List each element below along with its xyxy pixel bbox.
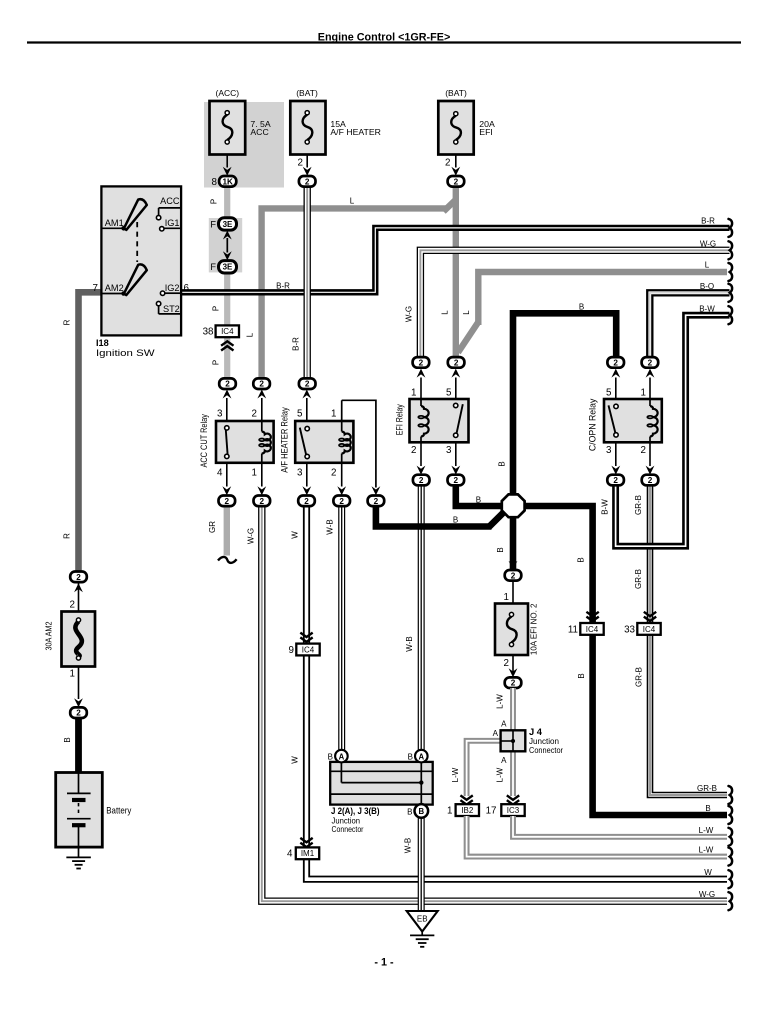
label pin 2 AM2 bbox=[70, 599, 75, 610]
connector 33 IC4 bbox=[637, 623, 660, 635]
svg-text:IM1: IM1 bbox=[301, 849, 315, 858]
wire B EFI-relay-3-to-octagon bbox=[456, 486, 507, 507]
svg-text:3: 3 bbox=[606, 445, 612, 456]
connector oval 2 (B-R relay) bbox=[299, 378, 316, 389]
svg-text:3E: 3E bbox=[223, 220, 233, 229]
connector 38 IC4 bbox=[216, 325, 239, 337]
svg-text:ACC: ACC bbox=[160, 196, 180, 206]
label P below 1K bbox=[210, 199, 219, 204]
svg-text:L: L bbox=[441, 310, 450, 315]
svg-text:3: 3 bbox=[446, 445, 452, 456]
ignition AM1 contact bbox=[101, 226, 125, 231]
ignition dashed link bbox=[136, 222, 138, 262]
fusible link 30A AM2 box bbox=[62, 612, 96, 667]
svg-text:W: W bbox=[291, 531, 300, 539]
brace B-R bbox=[729, 219, 733, 237]
svg-text:1K: 1K bbox=[222, 177, 233, 186]
svg-text:2: 2 bbox=[260, 497, 265, 506]
svg-text:GR-B: GR-B bbox=[634, 495, 643, 515]
chevrons above 4 IM1 bbox=[300, 838, 312, 847]
wire B-O right-edge-to-COPN-relay-1 bbox=[650, 293, 730, 357]
svg-text:P: P bbox=[212, 360, 221, 365]
svg-text:ACC CUT Relay: ACC CUT Relay bbox=[199, 414, 209, 468]
chevrons above 9 IC4 bbox=[300, 633, 312, 642]
svg-text:2: 2 bbox=[504, 658, 509, 669]
svg-text:4: 4 bbox=[287, 849, 293, 860]
svg-text:5: 5 bbox=[606, 388, 612, 399]
label W-B col efi bbox=[405, 636, 414, 651]
ignition switch box bbox=[101, 186, 181, 335]
svg-text:A: A bbox=[339, 752, 345, 761]
label W-G col bbox=[247, 528, 256, 544]
connector oval 2 (W-B efi) bbox=[413, 475, 430, 486]
label IG1 bbox=[165, 218, 180, 228]
wire B octagon-south-to-fuse bbox=[510, 512, 517, 570]
svg-text:W: W bbox=[291, 756, 300, 764]
label I18 bbox=[96, 338, 109, 348]
fuse 15A box bbox=[290, 101, 325, 155]
label B circa left bbox=[328, 753, 333, 762]
EFI coil bbox=[418, 399, 428, 442]
label (ACC) bbox=[215, 88, 239, 98]
label pin 3 AF bbox=[297, 467, 303, 478]
svg-text:3: 3 bbox=[297, 467, 303, 478]
svg-text:W-B: W-B bbox=[405, 636, 414, 651]
svg-text:8: 8 bbox=[212, 177, 218, 188]
wire B battery bbox=[75, 718, 82, 773]
label F upper bbox=[210, 219, 216, 229]
title rule bbox=[27, 41, 741, 43]
svg-text:(BAT): (BAT) bbox=[445, 88, 467, 98]
wire L-W J4-down bbox=[510, 751, 516, 796]
svg-text:2: 2 bbox=[225, 497, 230, 506]
label pin 2 bbox=[252, 409, 257, 420]
label B battery bbox=[63, 737, 72, 742]
label 15A A/F HEATER bbox=[330, 119, 381, 137]
wire 10A-to-oval bbox=[509, 655, 518, 677]
svg-text:J 2(A), J 3(B): J 2(A), J 3(B) bbox=[331, 805, 380, 816]
connector oval 2 (L relay) bbox=[253, 378, 270, 389]
label W col lower bbox=[291, 756, 300, 764]
svg-text:EFI: EFI bbox=[479, 127, 493, 137]
label GR-B col c bbox=[635, 667, 644, 687]
wire ACC-relay pin1 down bbox=[257, 463, 266, 495]
svg-text:IC4: IC4 bbox=[221, 327, 234, 336]
label pin 1b bbox=[252, 467, 257, 478]
svg-text:1: 1 bbox=[504, 592, 509, 603]
fuse 10A EFI NO.2 box bbox=[495, 604, 528, 656]
svg-text:7: 7 bbox=[93, 283, 98, 294]
svg-text:9: 9 bbox=[289, 645, 294, 656]
svg-text:C/OPN Relay: C/OPN Relay bbox=[588, 398, 598, 451]
svg-text:GR-B: GR-B bbox=[697, 784, 717, 793]
wire EFI pin2 down bbox=[417, 442, 426, 475]
wire B octagon-north-to-COPN-relay-5 bbox=[513, 313, 616, 500]
label P above IC4 bbox=[212, 306, 221, 311]
label B circb bbox=[407, 807, 412, 816]
title heading bbox=[318, 32, 451, 44]
label B-W edge bbox=[699, 304, 715, 313]
wire P fuse-to-3E bbox=[224, 187, 230, 220]
svg-text:I18: I18 bbox=[96, 338, 109, 348]
svg-text:2: 2 bbox=[304, 497, 309, 506]
svg-text:W-G: W-G bbox=[405, 306, 414, 322]
svg-text:11: 11 bbox=[568, 624, 578, 635]
ignition blade AM2 bbox=[124, 264, 147, 295]
wire P IC4-to-connector bbox=[224, 338, 230, 379]
label W-G edge bbox=[700, 239, 716, 248]
svg-text:17: 17 bbox=[486, 806, 497, 817]
wire P 3E-to-IC4 bbox=[224, 272, 230, 326]
label B-W col bbox=[600, 499, 609, 515]
label 2 pin (20A) bbox=[445, 158, 450, 169]
label L edge bbox=[705, 261, 710, 270]
svg-text:2: 2 bbox=[70, 599, 75, 610]
svg-text:1: 1 bbox=[252, 467, 257, 478]
svg-text:W-G: W-G bbox=[699, 890, 715, 899]
label W-B col a bbox=[326, 519, 335, 534]
wire 15A-fuse-to-2 bbox=[303, 142, 312, 176]
label ST2 bbox=[163, 304, 180, 314]
EB ground triangle bbox=[407, 911, 438, 932]
svg-text:B: B bbox=[577, 673, 586, 678]
C/OPN coil bbox=[647, 399, 657, 442]
C/OPN relay box bbox=[604, 399, 662, 442]
wire ACC-relay pin3 up bbox=[223, 390, 232, 422]
svg-text:P: P bbox=[210, 199, 219, 204]
svg-text:ST2: ST2 bbox=[163, 304, 180, 314]
svg-text:B: B bbox=[453, 516, 458, 525]
label Connector J4 bbox=[529, 746, 563, 755]
wire R ignition-to-fuse bbox=[79, 292, 102, 571]
svg-text:2: 2 bbox=[445, 158, 450, 169]
svg-text:B-R: B-R bbox=[701, 217, 715, 226]
svg-text:AM2: AM2 bbox=[105, 283, 124, 293]
label J 2(A), J 3(B) bbox=[331, 805, 380, 816]
label R lower bbox=[63, 533, 72, 539]
connector oval 2 (P relay) bbox=[219, 378, 236, 389]
label B circa right bbox=[408, 753, 413, 762]
svg-text:(BAT): (BAT) bbox=[296, 88, 318, 98]
J2 junction connector box bbox=[330, 762, 433, 805]
wire B-R ignition-IG2-to-right-edge bbox=[181, 228, 730, 292]
label B efi3 bbox=[476, 495, 481, 504]
label IG2 bbox=[165, 283, 180, 293]
svg-text:ACC: ACC bbox=[250, 127, 268, 137]
wire B-R fuse-to-AF-relay-5 bbox=[304, 187, 311, 379]
svg-text:1: 1 bbox=[411, 388, 416, 399]
wire AM2-to-oval bbox=[74, 667, 83, 708]
svg-text:B: B bbox=[418, 807, 424, 816]
svg-text:3: 3 bbox=[217, 409, 223, 420]
label J 4 bbox=[529, 727, 543, 737]
A/F HEATER switch bbox=[300, 426, 310, 458]
chevrons below 38 IC4 bbox=[221, 341, 233, 350]
brace L-W a bbox=[729, 828, 733, 846]
label 10A EFI NO. 2 bbox=[530, 603, 539, 655]
label B af1 bbox=[453, 516, 458, 525]
label GR bbox=[208, 521, 217, 533]
connector 9 IC4 bbox=[296, 644, 319, 656]
connector oval 1K bbox=[219, 176, 236, 187]
wire L from-right-edge bbox=[458, 272, 727, 353]
label A below J4 bbox=[501, 756, 507, 765]
label ACC contact bbox=[160, 196, 180, 206]
label pin 2 10A bbox=[504, 658, 509, 669]
wire 20A-fuse-to-2 bbox=[451, 142, 460, 176]
svg-text:2: 2 bbox=[419, 476, 424, 485]
chevrons above IC3 bbox=[507, 795, 519, 804]
wire W-G right-edge-to-EFI-relay-1 bbox=[420, 250, 729, 356]
svg-text:EFI Relay: EFI Relay bbox=[394, 404, 404, 435]
label L-W edge b bbox=[699, 846, 714, 855]
wire L-W IB2-to-edge bbox=[467, 816, 727, 857]
connector oval 2 (B efi) bbox=[448, 475, 465, 486]
wire L-W J4-left-branch bbox=[467, 741, 501, 796]
connector oval 2 (20A) bbox=[448, 176, 465, 187]
label (BAT) 20A bbox=[445, 88, 467, 98]
svg-text:1: 1 bbox=[70, 669, 75, 680]
label pin 1 10A bbox=[504, 592, 509, 603]
svg-text:2: 2 bbox=[411, 445, 416, 456]
wire ACC-relay pin2 up bbox=[257, 390, 266, 422]
svg-text:2: 2 bbox=[259, 380, 264, 389]
connector oval 2 (15A) bbox=[299, 176, 316, 187]
label pin 2 EFI bbox=[411, 445, 416, 456]
label 9 bbox=[289, 645, 294, 656]
svg-text:Connector: Connector bbox=[529, 746, 563, 755]
svg-text:2: 2 bbox=[331, 467, 336, 478]
connector 17 IC3 bbox=[501, 804, 524, 816]
svg-text:2: 2 bbox=[374, 497, 379, 506]
label pin 5 COPN bbox=[606, 388, 612, 399]
svg-text:W-G: W-G bbox=[247, 528, 256, 544]
svg-text:2: 2 bbox=[454, 476, 459, 485]
circled B bottom bbox=[415, 804, 429, 818]
battery box bbox=[56, 773, 103, 848]
svg-text:2: 2 bbox=[454, 177, 459, 186]
ignition blade AM1 bbox=[124, 199, 147, 230]
svg-text:EB: EB bbox=[417, 914, 428, 923]
svg-text:2: 2 bbox=[305, 380, 310, 389]
wire W-G ACC-relay-1-to-right-edge bbox=[262, 506, 727, 901]
wire W AF-relay-3-down-to-right-edge bbox=[307, 506, 728, 879]
svg-text:F: F bbox=[210, 262, 216, 272]
A/F HEATER relay box bbox=[295, 421, 353, 463]
highlight behind 3E connectors bbox=[209, 218, 242, 272]
wire L-W fuse-to-J4 bbox=[510, 688, 516, 730]
label L col bbox=[246, 332, 255, 337]
label 33 bbox=[624, 624, 635, 635]
svg-text:2: 2 bbox=[76, 573, 81, 582]
svg-text:IG1: IG1 bbox=[165, 218, 180, 228]
label pin 1 AM2 bbox=[70, 669, 75, 680]
label 1 IB2 bbox=[447, 806, 452, 817]
wire EFI pin3 down bbox=[451, 442, 460, 475]
label W edge bbox=[704, 868, 712, 877]
svg-text:L-W: L-W bbox=[496, 694, 505, 709]
brace B bbox=[729, 806, 733, 824]
connector 1 IB2 bbox=[456, 804, 479, 816]
svg-text:Battery: Battery bbox=[106, 805, 131, 815]
svg-text:2: 2 bbox=[305, 177, 310, 186]
label 17 IC3 bbox=[486, 806, 497, 817]
C/OPN switch bbox=[609, 404, 619, 437]
label pin 1 EFI bbox=[411, 388, 416, 399]
svg-text:2: 2 bbox=[641, 445, 646, 456]
connector oval 2 (GR-B copn) bbox=[642, 475, 659, 486]
brace W-G bbox=[729, 241, 733, 259]
fuse 20A EFI symbol bbox=[451, 112, 461, 144]
label GR-B col a bbox=[634, 495, 643, 515]
wire R-arrow into oval bbox=[74, 583, 83, 597]
svg-text:Junction: Junction bbox=[529, 737, 559, 746]
label ACC CUT Relay bbox=[199, 414, 209, 468]
svg-text:B: B bbox=[705, 804, 710, 813]
chevrons above 11 IC4 bbox=[586, 612, 598, 621]
label 20A EFI bbox=[479, 119, 495, 137]
svg-text:B-R: B-R bbox=[276, 282, 290, 291]
svg-text:IG2: IG2 bbox=[165, 283, 180, 293]
connector oval 2 (W-G efi) bbox=[413, 357, 430, 368]
connector oval 2 (B copn) bbox=[607, 357, 624, 368]
svg-text:33: 33 bbox=[624, 624, 635, 635]
ACC CUT coil bbox=[259, 421, 271, 463]
label L-W edge a bbox=[699, 826, 714, 835]
label B edge bbox=[705, 804, 710, 813]
svg-text:2: 2 bbox=[613, 476, 618, 485]
connector oval 2 (B-O copn) bbox=[642, 357, 659, 368]
svg-text:A: A bbox=[501, 756, 507, 765]
label pin 4 bbox=[217, 467, 223, 478]
label pin 6 bbox=[184, 283, 190, 294]
fusible link symbol bbox=[75, 618, 81, 660]
label Junction J4 bbox=[529, 737, 559, 746]
svg-text:L-W: L-W bbox=[496, 767, 505, 782]
svg-text:P: P bbox=[212, 306, 221, 311]
connector 4 IM1 bbox=[296, 847, 319, 859]
wire AF-relay pin1 coil route bbox=[342, 400, 381, 495]
label pin 3 COPN bbox=[606, 445, 612, 456]
label EFI Relay bbox=[394, 404, 404, 435]
label 2 pin (15A) bbox=[298, 158, 303, 169]
svg-text:GR-B: GR-B bbox=[634, 569, 643, 589]
wire COPN pin5 up bbox=[611, 369, 620, 399]
svg-text:B: B bbox=[408, 753, 413, 762]
connector oval 2 (B-W copn) bbox=[607, 475, 624, 486]
connector oval 2 (GR) bbox=[219, 496, 236, 507]
label W-G col efi bbox=[405, 306, 414, 322]
svg-text:B-W: B-W bbox=[600, 499, 609, 515]
svg-text:2: 2 bbox=[225, 380, 230, 389]
J4 junction connector box bbox=[501, 730, 526, 751]
circled A left bbox=[335, 750, 348, 763]
label pin 5 bbox=[297, 409, 303, 420]
label L-W above J4 bbox=[496, 694, 505, 709]
fuse 7.5A ACC symbol bbox=[223, 111, 233, 144]
svg-text:IC3: IC3 bbox=[507, 806, 520, 815]
svg-text:2: 2 bbox=[419, 358, 424, 367]
connector oval 3E lower bbox=[219, 261, 237, 273]
svg-text:J 4: J 4 bbox=[529, 727, 543, 737]
wire EFI pin1 up bbox=[417, 369, 426, 399]
wire L horizontal-branch bbox=[262, 200, 456, 379]
connector oval 2 (10A bottom) bbox=[505, 677, 522, 688]
label GR-B edge bbox=[697, 784, 717, 793]
svg-text:2: 2 bbox=[648, 358, 653, 367]
junction octagon bbox=[502, 494, 525, 517]
ignition IG1 contact bbox=[160, 227, 181, 231]
chevrons above IB2 bbox=[460, 795, 472, 804]
connector 11 IC4 bbox=[580, 623, 603, 635]
connector oval 2 (B route) bbox=[368, 496, 385, 507]
wire ACC-relay pin4 down bbox=[222, 463, 231, 495]
wire COPN pin3 down bbox=[611, 442, 620, 475]
label B top horizontal bbox=[579, 303, 584, 312]
svg-text:W-B: W-B bbox=[403, 838, 412, 853]
svg-text:R: R bbox=[63, 533, 72, 539]
label B-O edge bbox=[700, 282, 714, 291]
wire to AM2 pin2 bbox=[78, 597, 80, 612]
label L-W left bbox=[451, 767, 460, 782]
wire B-arrow into oval s bbox=[509, 561, 518, 570]
svg-text:A/F HEATER Relay: A/F HEATER Relay bbox=[280, 407, 290, 473]
brace W-G b bbox=[729, 892, 733, 910]
label pin 2 COPN bbox=[641, 445, 646, 456]
fuse 15A symbol bbox=[303, 111, 313, 144]
connector oval 2 (W-G) bbox=[254, 496, 271, 507]
svg-text:B: B bbox=[63, 737, 72, 742]
svg-text:Connector: Connector bbox=[332, 825, 364, 834]
label pin 1 COPN bbox=[641, 388, 646, 399]
label B col east a bbox=[576, 557, 585, 562]
label B col east b bbox=[577, 673, 586, 678]
label W-G edge b bbox=[699, 890, 715, 899]
ACC CUT switch bbox=[225, 426, 229, 459]
label 4 bbox=[287, 849, 293, 860]
EFI switch bbox=[454, 403, 463, 437]
svg-text:B: B bbox=[576, 557, 585, 562]
label AM1 bbox=[105, 218, 124, 228]
wire L-W IC3-to-edge bbox=[513, 816, 727, 837]
EB ground symbol bbox=[410, 932, 434, 947]
label 11 bbox=[568, 624, 578, 635]
brace B-O bbox=[729, 284, 733, 302]
wire EFI pin5 up bbox=[451, 369, 460, 399]
svg-text:A: A bbox=[501, 719, 507, 728]
wire COPN pin2 down bbox=[646, 442, 655, 475]
connector oval 2 (W) bbox=[298, 496, 315, 507]
svg-text:L: L bbox=[705, 261, 710, 270]
wire GR stub bbox=[224, 506, 230, 556]
label W-B eb bbox=[403, 838, 412, 853]
svg-text:5: 5 bbox=[446, 388, 452, 399]
wire COPN pin1 up bbox=[646, 369, 655, 399]
svg-text:L-W: L-W bbox=[699, 826, 714, 835]
svg-text:10A EFI NO. 2: 10A EFI NO. 2 bbox=[530, 603, 539, 655]
svg-text:L-W: L-W bbox=[451, 767, 460, 782]
label L col efi a bbox=[441, 310, 450, 315]
label 38 bbox=[203, 327, 214, 338]
svg-text:2: 2 bbox=[648, 476, 653, 485]
svg-text:B-W: B-W bbox=[699, 304, 715, 313]
label pin 5 EFI bbox=[446, 388, 452, 399]
label L col efi b bbox=[462, 310, 471, 315]
svg-text:L: L bbox=[350, 197, 355, 206]
label 30A AM2 bbox=[45, 621, 54, 650]
label pin 1 AF bbox=[331, 409, 336, 420]
svg-text:IC4: IC4 bbox=[586, 625, 599, 634]
